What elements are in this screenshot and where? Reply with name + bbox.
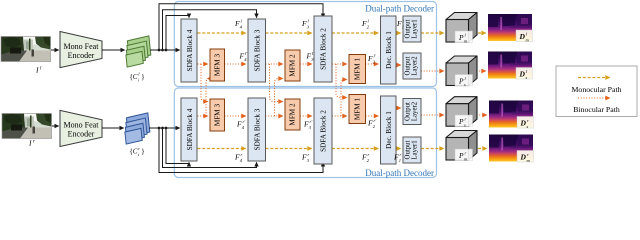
svg-text:D: D	[520, 119, 527, 128]
svg-text:4: 4	[240, 158, 243, 163]
skip wire to block4 top	[166, 16, 189, 51]
svg-text:1: 1	[399, 158, 401, 163]
svg-text:}: }	[141, 73, 144, 81]
svg-text:Layer1: Layer1	[412, 140, 419, 159]
svg-text:Dual-path Decoder: Dual-path Decoder	[365, 168, 434, 178]
Output Layer2 (bottom)	[403, 99, 421, 125]
legend binocular arrow	[578, 97, 610, 99]
SDFA Block 2 (top)	[314, 16, 332, 82]
depth map D_m^r	[489, 135, 533, 162]
SDFA Block 4 (bottom)	[181, 98, 197, 161]
MFM 1 (top)	[349, 55, 366, 84]
svg-text:3: 3	[309, 125, 312, 130]
svg-text:}: }	[141, 148, 144, 156]
label F_3^l'	[306, 51, 316, 62]
label F_2^l	[361, 19, 370, 30]
svg-text:SDFA Block 3: SDFA Block 3	[254, 29, 262, 71]
svg-text:r: r	[527, 118, 529, 123]
label F_4^l	[234, 19, 243, 30]
cube P_s^r	[446, 97, 477, 127]
skip wire to block2 bottom	[159, 128, 323, 173]
svg-text:Layer2: Layer2	[412, 101, 419, 121]
skip wire to block2 top	[159, 4, 323, 50]
dual-path decoder outer box (top)	[174, 2, 436, 87]
depth map D_s^r	[489, 101, 533, 128]
svg-text:SDFA Block 2: SDFA Block 2	[320, 110, 328, 152]
svg-text:D: D	[520, 153, 527, 162]
wire photo to top encoder	[51, 49, 59, 51]
svg-text:Layer1: Layer1	[412, 19, 419, 38]
mono feat encoder (bottom)	[60, 110, 102, 146]
label {C_i^r}	[130, 146, 145, 157]
svg-text:D: D	[519, 32, 526, 41]
svg-text:3: 3	[307, 158, 310, 163]
dual-path decoder outer box (bottom)	[174, 88, 436, 178]
svg-text:r: r	[527, 152, 529, 157]
SDFA Block 3 (top)	[248, 19, 266, 82]
wire encoder to feature stack (top)	[102, 49, 125, 51]
svg-text:Output: Output	[405, 56, 412, 75]
svg-text:r: r	[241, 152, 243, 157]
monocular path gold dashed (bottom row y=148.5)	[198, 148, 487, 150]
wire encoder to feature stack (bottom)	[102, 127, 124, 129]
Output Layer1 (bottom)	[403, 137, 421, 163]
svg-text:l′: l′	[374, 54, 377, 59]
SDFA Block 3 (bottom)	[248, 98, 266, 161]
svg-text:l: l	[308, 19, 310, 24]
svg-text:r: r	[138, 146, 140, 151]
svg-text:l: l	[241, 19, 243, 24]
mono feat encoder (top)	[60, 32, 102, 68]
svg-text:r: r	[33, 140, 35, 145]
label F_2^l'	[367, 54, 377, 65]
label {C_i^l}	[130, 72, 145, 83]
svg-text:SDFA Block 4: SDFA Block 4	[186, 108, 194, 150]
label F_2^r	[361, 152, 370, 163]
svg-text:Mono Feat: Mono Feat	[64, 121, 100, 130]
svg-text:4: 4	[240, 25, 243, 30]
label F_4^l'	[239, 51, 249, 62]
svg-text:2: 2	[367, 25, 370, 30]
svg-text:2: 2	[373, 124, 376, 129]
svg-text:Layer2: Layer2	[412, 56, 419, 76]
svg-text:Output: Output	[405, 19, 412, 38]
label F_3^r'	[303, 119, 313, 130]
svg-text:s: s	[464, 123, 466, 128]
svg-text:r: r	[400, 152, 402, 157]
svg-text:Monocular Path: Monocular Path	[571, 85, 621, 94]
skip wire to block4 bottom	[166, 128, 189, 164]
binocular path orange dotted (top row y=64)	[198, 64, 486, 71]
svg-text:MFM 1: MFM 1	[354, 98, 362, 121]
label F_3^l	[301, 19, 310, 30]
svg-text:Mono Feat: Mono Feat	[64, 42, 100, 51]
depth map D_s^l	[488, 52, 532, 79]
svg-text:SDFA Block 4: SDFA Block 4	[186, 29, 194, 71]
MFM 2 (top)	[285, 50, 300, 81]
junction dots top	[158, 49, 161, 52]
binocular path orange dotted (bottom row y=116)	[198, 108, 487, 116]
svg-text:l: l	[40, 67, 42, 72]
SDFA Block 4 (top)	[181, 19, 197, 82]
feature stack {C_i^l} green	[124, 36, 151, 67]
label F_1^r	[393, 152, 402, 163]
svg-text:r: r	[308, 152, 310, 157]
svg-text:MFM 2: MFM 2	[289, 54, 297, 77]
MFM 3 (top)	[210, 49, 225, 81]
wire photo to bottom encoder	[52, 125, 59, 127]
svg-text:r′: r′	[243, 119, 247, 124]
svg-text:Output: Output	[405, 140, 412, 159]
label F_4^r	[234, 152, 243, 163]
skip wire to block3 top	[163, 10, 257, 50]
binocular exchange verticals at MFM3	[201, 64, 211, 116]
photo of left input image	[1, 37, 51, 62]
Dec. Block 1 (bottom)	[381, 96, 397, 164]
Output Layer2 (top)	[403, 53, 421, 79]
svg-text:r′: r′	[374, 118, 378, 123]
svg-text:Output: Output	[405, 102, 412, 121]
svg-text:Encoder: Encoder	[68, 51, 95, 60]
binocular exchange verticals at MFM2	[270, 64, 283, 116]
legend box	[556, 66, 637, 117]
svg-text:MFM 3: MFM 3	[214, 54, 222, 77]
monocular path gold dashed (top row y=33)	[198, 32, 486, 34]
MFM 2 (bottom)	[285, 99, 300, 130]
svg-text:1: 1	[402, 25, 404, 30]
svg-text:r: r	[465, 151, 467, 156]
photo of right input image	[2, 114, 52, 139]
svg-text:4: 4	[242, 125, 245, 130]
Dec. Block 1 (top)	[381, 16, 397, 84]
svg-text:l: l	[368, 19, 370, 24]
Output Layer1 (top)	[403, 16, 421, 42]
label F_1^l	[396, 19, 405, 30]
MFM 1 (bottom)	[349, 95, 366, 124]
SDFA Block 2 (bottom)	[314, 98, 332, 164]
svg-text:MFM 2: MFM 2	[289, 103, 297, 126]
svg-text:I: I	[35, 66, 39, 75]
svg-text:4: 4	[244, 57, 247, 62]
legend monocular arrow	[578, 77, 610, 79]
svg-text:Dual-path Decoder: Dual-path Decoder	[365, 4, 434, 14]
feature stack {C_i^r} blue	[123, 113, 150, 144]
skip wire to block3 bottom	[163, 128, 257, 168]
wire stack to SDFA Block 4 (top)	[150, 49, 180, 51]
label F_4^r'	[236, 119, 246, 130]
wire stack to SDFA Block 4 (bottom)	[149, 127, 180, 129]
cube P_s^l	[446, 56, 477, 86]
svg-text:MFM 1: MFM 1	[354, 58, 362, 81]
svg-text:s: s	[526, 75, 528, 80]
svg-text:3: 3	[307, 25, 310, 30]
MFM 3 (bottom)	[210, 99, 225, 131]
binocular exchange verticals at MFM1	[336, 64, 347, 116]
svg-text:s: s	[464, 82, 466, 87]
label F_3^r	[301, 152, 310, 163]
svg-text:SDFA Block 2: SDFA Block 2	[320, 28, 328, 70]
svg-text:Dec. Block 1: Dec. Block 1	[385, 31, 393, 69]
svg-text:i: i	[138, 78, 140, 83]
svg-text:r: r	[465, 117, 467, 122]
svg-text:2: 2	[367, 158, 370, 163]
junction dots bottom	[158, 127, 161, 130]
svg-text:l: l	[138, 72, 140, 77]
depth map D_m^l	[488, 14, 532, 41]
svg-text:Encoder: Encoder	[68, 130, 95, 139]
svg-text:MFM 3: MFM 3	[214, 104, 222, 127]
svg-text:Binocular Path: Binocular Path	[573, 105, 620, 114]
svg-text:SDFA Block 3: SDFA Block 3	[254, 108, 262, 150]
label F_2^r'	[367, 118, 377, 129]
svg-text:I: I	[28, 139, 32, 148]
svg-text:r′: r′	[310, 119, 314, 124]
svg-text:Dec. Block 1: Dec. Block 1	[385, 111, 393, 149]
svg-text:2: 2	[373, 60, 376, 65]
svg-text:s: s	[527, 124, 529, 129]
svg-text:i: i	[138, 152, 140, 157]
cube P_m^l	[446, 13, 477, 43]
svg-text:r: r	[368, 152, 370, 157]
svg-text:D: D	[519, 70, 526, 79]
cube P_m^r	[446, 131, 477, 161]
